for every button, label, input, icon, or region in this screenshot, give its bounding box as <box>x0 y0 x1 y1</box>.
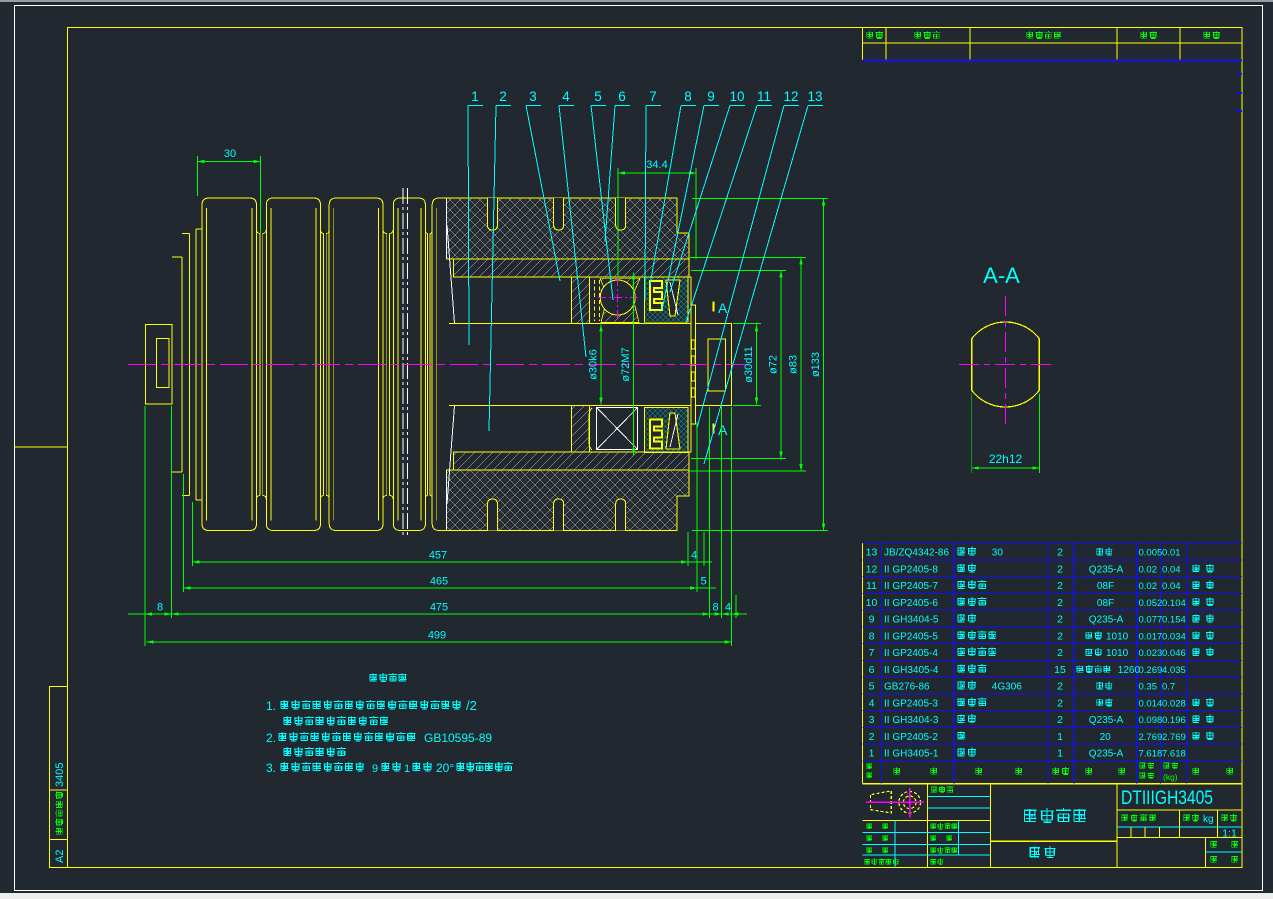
svg-text:ø83: ø83 <box>788 355 800 374</box>
svg-text:0.269: 0.269 <box>1139 665 1163 676</box>
svg-text:8: 8 <box>684 89 692 104</box>
part name box <box>991 840 1118 842</box>
seal block top (labyrinth) <box>645 277 688 322</box>
svg-text:0.014: 0.014 <box>1139 698 1163 709</box>
leader line 9 <box>662 106 704 311</box>
left shaft end block <box>146 325 172 404</box>
svg-text:2.769: 2.769 <box>1162 732 1186 743</box>
svg-text:II GP2405-7: II GP2405-7 <box>884 581 938 592</box>
svg-text:22h12: 22h12 <box>989 452 1023 466</box>
svg-text:0.04: 0.04 <box>1162 564 1181 575</box>
svg-text:9: 9 <box>869 614 875 626</box>
svg-text:30: 30 <box>992 548 1004 559</box>
svg-text:0.077: 0.077 <box>1139 615 1163 626</box>
svg-text:2: 2 <box>869 731 875 743</box>
svg-text:3405: 3405 <box>54 763 66 787</box>
parts list header <box>866 763 872 769</box>
svg-text:12: 12 <box>866 563 878 575</box>
svg-text:0.02: 0.02 <box>1139 581 1158 592</box>
svg-text:11: 11 <box>757 89 771 104</box>
svg-text:(kg): (kg) <box>1163 772 1178 782</box>
svg-text:2: 2 <box>1057 714 1063 726</box>
svg-text:ø133: ø133 <box>810 352 822 377</box>
bearing inner ring section top <box>601 306 639 323</box>
svg-text:/2: /2 <box>466 698 477 713</box>
leader line 3 <box>526 106 560 282</box>
leader line 6 <box>605 106 615 243</box>
svg-text:1: 1 <box>869 748 875 760</box>
svg-text:2: 2 <box>499 89 507 104</box>
technical requirements title <box>369 673 406 682</box>
svg-text:II GP2405-5: II GP2405-5 <box>884 631 938 642</box>
svg-text:0.04: 0.04 <box>1162 581 1181 592</box>
svg-text:0.005: 0.005 <box>1139 548 1163 559</box>
svg-text:II GH3405-1: II GH3405-1 <box>884 749 939 760</box>
sectioned rubber lagging top <box>447 198 689 259</box>
parts list table <box>862 543 864 784</box>
svg-text:8: 8 <box>712 602 718 614</box>
svg-text:2: 2 <box>1057 630 1063 642</box>
svg-text:9: 9 <box>707 89 715 104</box>
svg-text:Q235-A: Q235-A <box>1089 749 1124 760</box>
svg-text:3: 3 <box>869 714 875 726</box>
signature rows <box>863 831 991 833</box>
svg-text:3: 3 <box>529 89 537 104</box>
blue fold ticks <box>1236 73 1242 75</box>
dim ø133 <box>823 199 825 531</box>
bottom dims extension lines <box>144 406 146 646</box>
svg-text:1: 1 <box>404 763 410 775</box>
svg-text:13: 13 <box>866 547 878 559</box>
svg-text:1: 1 <box>471 89 479 104</box>
svg-text:kg: kg <box>1203 814 1214 825</box>
dim 465 <box>184 587 697 589</box>
roller rubber rings (external view) <box>202 198 257 531</box>
dim ø30d11 <box>756 325 758 405</box>
svg-text:A-A: A-A <box>983 263 1020 288</box>
shaft <box>449 323 691 325</box>
projection symbol box <box>863 820 991 822</box>
end retaining disc <box>691 305 696 424</box>
svg-text:30: 30 <box>224 148 236 160</box>
leader line 8 <box>650 106 681 286</box>
leader line 12 <box>697 106 784 429</box>
svg-text:0.35: 0.35 <box>1139 682 1158 693</box>
leader line 11 <box>686 106 757 323</box>
projection cone symbol <box>870 791 891 813</box>
svg-text:GB276-86: GB276-86 <box>884 682 930 693</box>
dim ø72 <box>780 271 782 459</box>
projection symbol centerlines <box>866 801 924 803</box>
svg-text:DTIIIGH3405: DTIIIGH3405 <box>1121 787 1213 809</box>
bearing outer ring section top <box>600 278 640 290</box>
label vertical text <box>55 792 63 835</box>
svg-text:10: 10 <box>866 597 878 609</box>
svg-text:II GP2405-6: II GP2405-6 <box>884 598 938 609</box>
svg-text:9: 9 <box>372 763 378 775</box>
svg-text:2: 2 <box>1057 580 1063 592</box>
svg-text:0.104: 0.104 <box>1162 598 1186 609</box>
svg-text:II GP2405-2: II GP2405-2 <box>884 732 938 743</box>
dim 475 <box>172 613 710 615</box>
svg-text:11: 11 <box>866 580 877 592</box>
svg-text:3.: 3. <box>266 761 276 775</box>
svg-text:1: 1 <box>1057 748 1063 760</box>
svg-text:2: 2 <box>1057 697 1063 709</box>
svg-text:457: 457 <box>429 550 447 562</box>
leader line 5 <box>591 106 613 301</box>
svg-text:0.01: 0.01 <box>1162 548 1181 559</box>
dim ø72M7 <box>633 273 635 456</box>
svg-text:2: 2 <box>1057 597 1063 609</box>
leader line 10 <box>670 106 730 293</box>
revision table headers <box>866 31 882 39</box>
svg-text:6: 6 <box>869 664 875 676</box>
svg-text:A: A <box>718 422 728 438</box>
svg-text:12: 12 <box>783 89 798 104</box>
svg-text:4.035: 4.035 <box>1162 665 1186 676</box>
svg-text:Q235-A: Q235-A <box>1089 715 1124 726</box>
svg-text:2: 2 <box>1057 563 1063 575</box>
svg-text:4: 4 <box>869 697 875 709</box>
svg-text:JB/ZQ4342-86: JB/ZQ4342-86 <box>884 548 949 559</box>
contract no box <box>931 786 954 793</box>
svg-text:8: 8 <box>869 630 875 642</box>
svg-text:0.046: 0.046 <box>1162 648 1186 659</box>
inner retaining ring (dashed) <box>594 280 596 321</box>
svg-text:4: 4 <box>691 550 697 562</box>
svg-text:08F: 08F <box>1097 598 1114 609</box>
section cut mark A top <box>713 302 715 312</box>
main centerline <box>128 364 748 366</box>
leader line 7 <box>645 106 646 301</box>
bearing housing top <box>572 277 691 323</box>
svg-text:2: 2 <box>1057 547 1063 559</box>
svg-text:4G306: 4G306 <box>992 682 1022 693</box>
projection circle symbol <box>899 792 921 814</box>
tech req line 2b <box>283 747 346 756</box>
svg-text:0.017: 0.017 <box>1139 631 1163 642</box>
grooves in sectioned rubber <box>488 198 498 230</box>
图样标记 重量 比例 row <box>1178 810 1180 837</box>
A-A centerlines <box>1005 296 1007 428</box>
ring5 partial <box>432 198 439 531</box>
svg-text:1010: 1010 <box>1106 648 1129 659</box>
svg-text:0.02: 0.02 <box>1139 564 1158 575</box>
dim 22h12 <box>971 393 973 473</box>
right shaft flat <box>708 339 726 391</box>
svg-text:II GH3405-4: II GH3405-4 <box>884 665 939 676</box>
svg-text:465: 465 <box>430 576 448 588</box>
svg-text:2: 2 <box>1057 681 1063 693</box>
svg-text:II GH3404-5: II GH3404-5 <box>884 615 939 626</box>
svg-text:A: A <box>718 300 728 316</box>
svg-text:5: 5 <box>869 681 875 693</box>
svg-text:34.4: 34.4 <box>646 159 667 171</box>
dim ø83 <box>800 258 802 472</box>
svg-text:0.7: 0.7 <box>1162 682 1175 693</box>
steel tube wall bottom <box>453 452 689 470</box>
svg-text:5: 5 <box>594 89 602 104</box>
svg-text:5: 5 <box>700 576 706 588</box>
revision table <box>862 28 864 61</box>
svg-text:Q235-A: Q235-A <box>1089 564 1124 575</box>
svg-text:0.196: 0.196 <box>1162 715 1186 726</box>
svg-text:499: 499 <box>428 630 446 642</box>
section cut mark A bottom <box>713 424 715 434</box>
svg-text:08F: 08F <box>1097 581 1114 592</box>
svg-text:A2: A2 <box>54 850 66 863</box>
tech req line 1b <box>283 716 388 725</box>
left shaft flat <box>156 339 169 388</box>
left A2 label box <box>50 687 68 868</box>
left fold mark <box>15 446 68 448</box>
svg-text:1260: 1260 <box>1118 665 1141 676</box>
svg-text:1.: 1. <box>266 699 276 713</box>
svg-text:II GP2405-3: II GP2405-3 <box>884 698 938 709</box>
svg-text:II GH3404-3: II GH3404-3 <box>884 715 939 726</box>
svg-text:1: 1 <box>1057 731 1063 743</box>
bearing bottom (X square) <box>589 408 592 450</box>
svg-text:ø72: ø72 <box>768 355 780 374</box>
svg-text:15: 15 <box>1054 664 1066 676</box>
svg-text:20: 20 <box>1100 732 1112 743</box>
svg-text:4: 4 <box>725 602 731 614</box>
title block outline <box>863 867 1243 869</box>
svg-text:ø30k6: ø30k6 <box>588 349 600 380</box>
leader line 2 <box>489 106 496 432</box>
svg-text:ø72M7: ø72M7 <box>620 347 632 381</box>
left hub steps <box>181 257 183 472</box>
svg-text:7: 7 <box>649 89 657 104</box>
svg-text:2.769: 2.769 <box>1139 732 1163 743</box>
steel tube wall top <box>453 259 689 277</box>
svg-text:10: 10 <box>729 89 744 104</box>
svg-text:0.028: 0.028 <box>1162 698 1186 709</box>
svg-text:0.098: 0.098 <box>1139 715 1163 726</box>
svg-text:GB10595-89: GB10595-89 <box>424 731 492 745</box>
svg-text:7: 7 <box>869 647 875 659</box>
phi dim extension lines <box>733 323 761 325</box>
seal block bottom <box>645 408 688 453</box>
svg-text:8: 8 <box>157 602 163 614</box>
grooves between rings <box>257 229 267 234</box>
bearing housing bottom <box>572 406 691 452</box>
svg-text:20°: 20° <box>436 761 454 775</box>
svg-text:0.052: 0.052 <box>1139 598 1163 609</box>
svg-text:1010: 1010 <box>1106 631 1129 642</box>
sectioned rubber lagging bottom <box>447 470 689 531</box>
svg-text:0.154: 0.154 <box>1162 615 1186 626</box>
svg-text:2: 2 <box>1057 647 1063 659</box>
svg-text:2.: 2. <box>266 731 276 745</box>
svg-text:0.034: 0.034 <box>1162 631 1186 642</box>
tube end edge <box>447 225 455 324</box>
svg-text:2: 2 <box>1057 614 1063 626</box>
svg-text:Q235-A: Q235-A <box>1089 615 1124 626</box>
svg-text:II GP2405-8: II GP2405-8 <box>884 564 938 575</box>
ball bearing top <box>600 280 635 315</box>
dim ø30k6 <box>600 325 602 405</box>
dim 457 <box>193 561 689 563</box>
svg-text:6: 6 <box>618 89 626 104</box>
dim 499 <box>147 641 732 643</box>
svg-text:7.618: 7.618 <box>1162 749 1186 760</box>
A-A section view <box>972 322 1040 407</box>
leader line 4 <box>559 106 586 358</box>
break line <box>402 188 404 537</box>
svg-text:475: 475 <box>430 602 448 614</box>
leader line 13 <box>704 106 808 465</box>
svg-text:II GP2405-4: II GP2405-4 <box>884 648 938 659</box>
svg-text:0.023: 0.023 <box>1139 648 1163 659</box>
svg-text:13: 13 <box>807 89 822 104</box>
leader line 1 <box>468 106 469 346</box>
pages box <box>1206 837 1243 867</box>
svg-text:7.618: 7.618 <box>1139 749 1163 760</box>
right shaft end block <box>696 324 732 406</box>
svg-text:4: 4 <box>562 89 570 104</box>
svg-text:ø30d11: ø30d11 <box>743 346 755 383</box>
